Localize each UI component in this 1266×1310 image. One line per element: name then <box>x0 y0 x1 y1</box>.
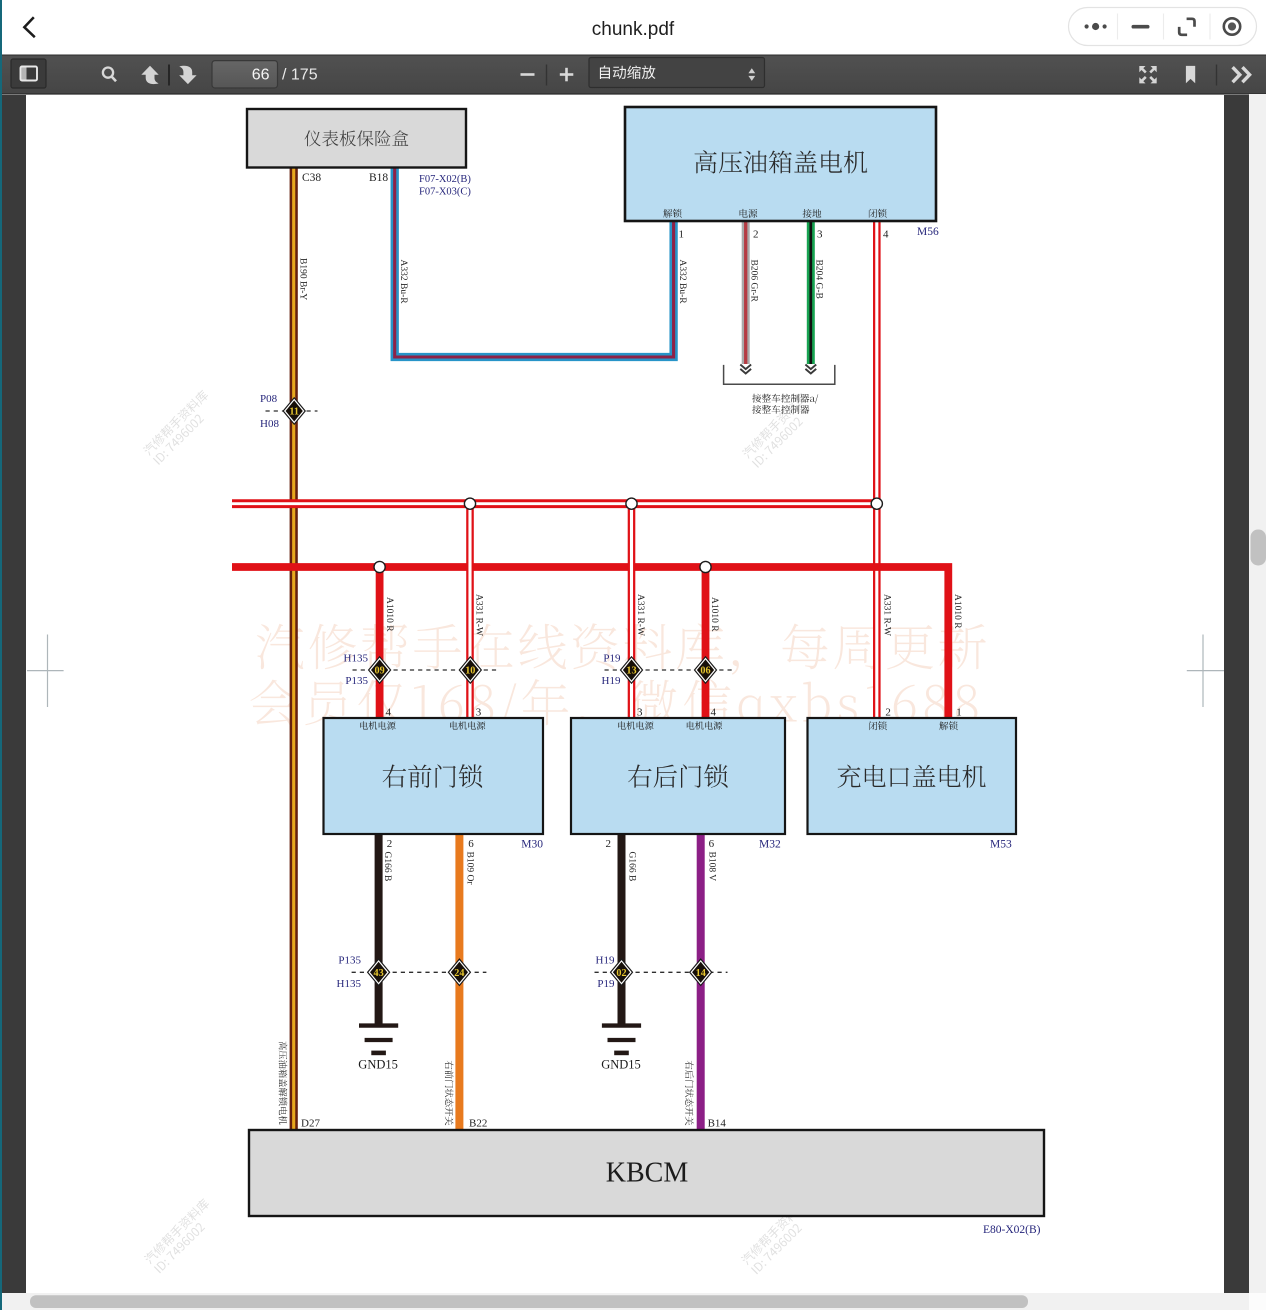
svg-text:P135: P135 <box>338 955 361 967</box>
svg-text:A331 R-W: A331 R-W <box>881 594 891 636</box>
svg-text:43: 43 <box>374 968 384 979</box>
svg-text:F07-X03(C): F07-X03(C) <box>419 187 471 198</box>
svg-text:B18: B18 <box>369 172 388 184</box>
svg-text:4: 4 <box>883 229 889 241</box>
svg-text:1: 1 <box>956 707 962 719</box>
svg-text:M53: M53 <box>990 839 1012 851</box>
svg-text:2: 2 <box>387 838 393 850</box>
svg-text:chunk.pdf: chunk.pdf <box>592 19 675 40</box>
svg-text:A1010 R: A1010 R <box>384 597 394 632</box>
svg-text:C38: C38 <box>302 172 321 184</box>
svg-text:M56: M56 <box>917 226 939 238</box>
svg-text:H135: H135 <box>337 978 362 990</box>
svg-text:06: 06 <box>700 666 710 677</box>
svg-text:3: 3 <box>817 229 823 241</box>
svg-text:A332 Bu-R: A332 Bu-R <box>677 260 687 305</box>
svg-text:M32: M32 <box>759 839 781 851</box>
svg-text:H19: H19 <box>602 675 621 687</box>
svg-text:/ 175: / 175 <box>282 66 318 83</box>
svg-text:4: 4 <box>386 707 392 719</box>
svg-text:11: 11 <box>289 407 299 418</box>
svg-text:P19: P19 <box>603 653 621 665</box>
svg-text:B206 Gr-R: B206 Gr-R <box>749 260 759 303</box>
svg-text:F07-X02(B): F07-X02(B) <box>419 174 471 185</box>
svg-text:A1010 R: A1010 R <box>952 594 962 629</box>
svg-text:4: 4 <box>711 707 717 719</box>
svg-text:13: 13 <box>626 666 636 677</box>
svg-text:H08: H08 <box>260 418 279 430</box>
svg-text:A332 Bu-R: A332 Bu-R <box>398 260 408 305</box>
svg-text:09: 09 <box>375 666 385 677</box>
svg-text:B190 Br-Y: B190 Br-Y <box>298 258 308 300</box>
svg-text:B22: B22 <box>469 1118 487 1130</box>
svg-text:H135: H135 <box>344 653 369 665</box>
svg-text:P135: P135 <box>345 675 368 687</box>
svg-text:B14: B14 <box>708 1118 727 1130</box>
svg-text:B108 V: B108 V <box>706 852 716 882</box>
svg-text:M30: M30 <box>521 839 543 851</box>
svg-text:G166 B: G166 B <box>627 852 637 882</box>
svg-text:A331 R-W: A331 R-W <box>635 594 645 636</box>
svg-text:A331 R-W: A331 R-W <box>474 594 484 636</box>
svg-text:GND15: GND15 <box>601 1058 641 1072</box>
svg-text:P08: P08 <box>260 393 278 405</box>
svg-text:10: 10 <box>465 666 475 677</box>
svg-text:B204 G-B: B204 G-B <box>814 260 824 299</box>
svg-text:E80-X02(B): E80-X02(B) <box>983 1224 1041 1236</box>
svg-text:G166 B: G166 B <box>382 852 392 882</box>
svg-text:14: 14 <box>696 968 706 979</box>
svg-text:D27: D27 <box>301 1118 320 1130</box>
svg-text:02: 02 <box>616 968 626 979</box>
svg-text:P19: P19 <box>597 978 615 990</box>
svg-text:2: 2 <box>885 707 891 719</box>
svg-text:B109 Or: B109 Or <box>464 852 474 886</box>
svg-text:H19: H19 <box>596 955 615 967</box>
svg-text:GND15: GND15 <box>358 1058 398 1072</box>
svg-text:3: 3 <box>476 707 482 719</box>
svg-text:24: 24 <box>454 968 464 979</box>
svg-text:3: 3 <box>637 707 643 719</box>
svg-text:A1010 R: A1010 R <box>709 597 719 632</box>
svg-text:6: 6 <box>468 838 474 850</box>
svg-text:2: 2 <box>606 838 612 850</box>
svg-text:66: 66 <box>252 66 270 83</box>
svg-text:KBCM: KBCM <box>606 1158 689 1189</box>
svg-text:1: 1 <box>679 229 685 241</box>
svg-text:2: 2 <box>753 229 759 241</box>
svg-text:6: 6 <box>709 838 715 850</box>
